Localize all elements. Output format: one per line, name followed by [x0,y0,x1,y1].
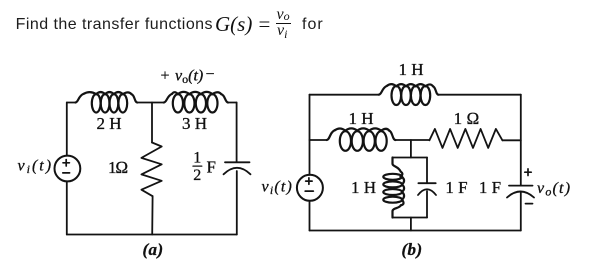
svg-text:(a): (a) [142,240,163,259]
wire T junction down (b) [410,140,412,158]
svg-text:1: 1 [193,150,201,167]
svg-text:vo(t): vo(t) [175,68,203,87]
wire left vertical upper (a) [66,103,68,156]
inductor 1H top (b) [379,84,439,105]
wire right vertical upper (b) [520,95,522,186]
fraction bar for 1/2 [193,165,202,167]
source vi(t) circuit b [297,175,323,201]
wire box top bar (b) [393,157,428,159]
wire bottom tap (b) [410,218,412,231]
title text [16,16,213,34]
wire top right (a) [228,102,237,104]
svg-text:1 Ω: 1 Ω [454,109,480,128]
wire middle vertical upper (a) [151,103,153,143]
svg-text:1 F: 1 F [445,178,467,197]
svg-text:(b): (b) [401,240,422,259]
wire row right (b) [502,139,520,141]
svg-text:F: F [206,158,215,177]
capacitor 1F right (b) [507,186,534,198]
wire middle vertical lower (a) [151,196,153,234]
wire right vertical lower (a) [236,171,238,235]
wire box right leg lower (b) [426,191,428,218]
svg-text:−: − [206,66,215,83]
wire bottom (a) [67,234,237,236]
svg-text:vo(t): vo(t) [537,180,571,199]
wire right vertical upper (a) [236,103,238,163]
svg-text:2 H: 2 H [96,114,121,133]
inductor 3H [164,92,228,113]
label + vo(t) - [161,66,215,86]
minus sign output (b) [526,203,533,205]
svg-text:1 H: 1 H [398,60,423,79]
svg-text:1 H: 1 H [351,178,376,197]
wire top-left horizontal (a) [67,102,76,104]
wire top left (b) [310,94,379,96]
wire left vertical lower (a) [66,181,68,234]
wire left vertical lower (b) [309,201,311,231]
svg-text:vi(t): vi(t) [18,158,54,177]
wire left vertical upper (b) [309,95,311,175]
svg-text:1 H: 1 H [348,109,373,128]
wire row left (b) [310,139,327,141]
capacitor 1F middle (b) [418,183,436,195]
wire top right (b) [438,94,520,96]
wire box right leg upper (b) [426,158,428,184]
capacitor 1/2 F [224,162,251,174]
svg-text:3 H: 3 H [182,114,207,133]
wire row middle (b) [396,139,430,141]
svg-text:2: 2 [193,167,201,184]
wire box bottom bar (b) [393,217,428,219]
inductor 1H row (b) [327,128,396,150]
fraction v_o / v_i [277,7,290,23]
svg-text:1Ω: 1Ω [108,158,128,177]
wire bottom (b) [310,230,521,232]
inductor 1H vertical (b) [383,158,404,218]
svg-text:1 F: 1 F [479,178,501,197]
svg-text:vi(t): vi(t) [262,178,294,197]
math G(s) = [215,14,252,35]
wire top middle (a) [137,102,164,104]
resistor 1 ohm (b) [429,129,502,148]
wire right vertical lower (b) [520,192,522,231]
word for [302,16,324,34]
label 1/2 F [193,150,216,185]
plus sign output (b) [525,169,531,176]
source vi(t) circuit a [55,156,81,182]
inductor 2H [76,92,138,112]
svg-text:+: + [161,68,170,85]
resistor 1 ohm (a) [141,143,161,197]
